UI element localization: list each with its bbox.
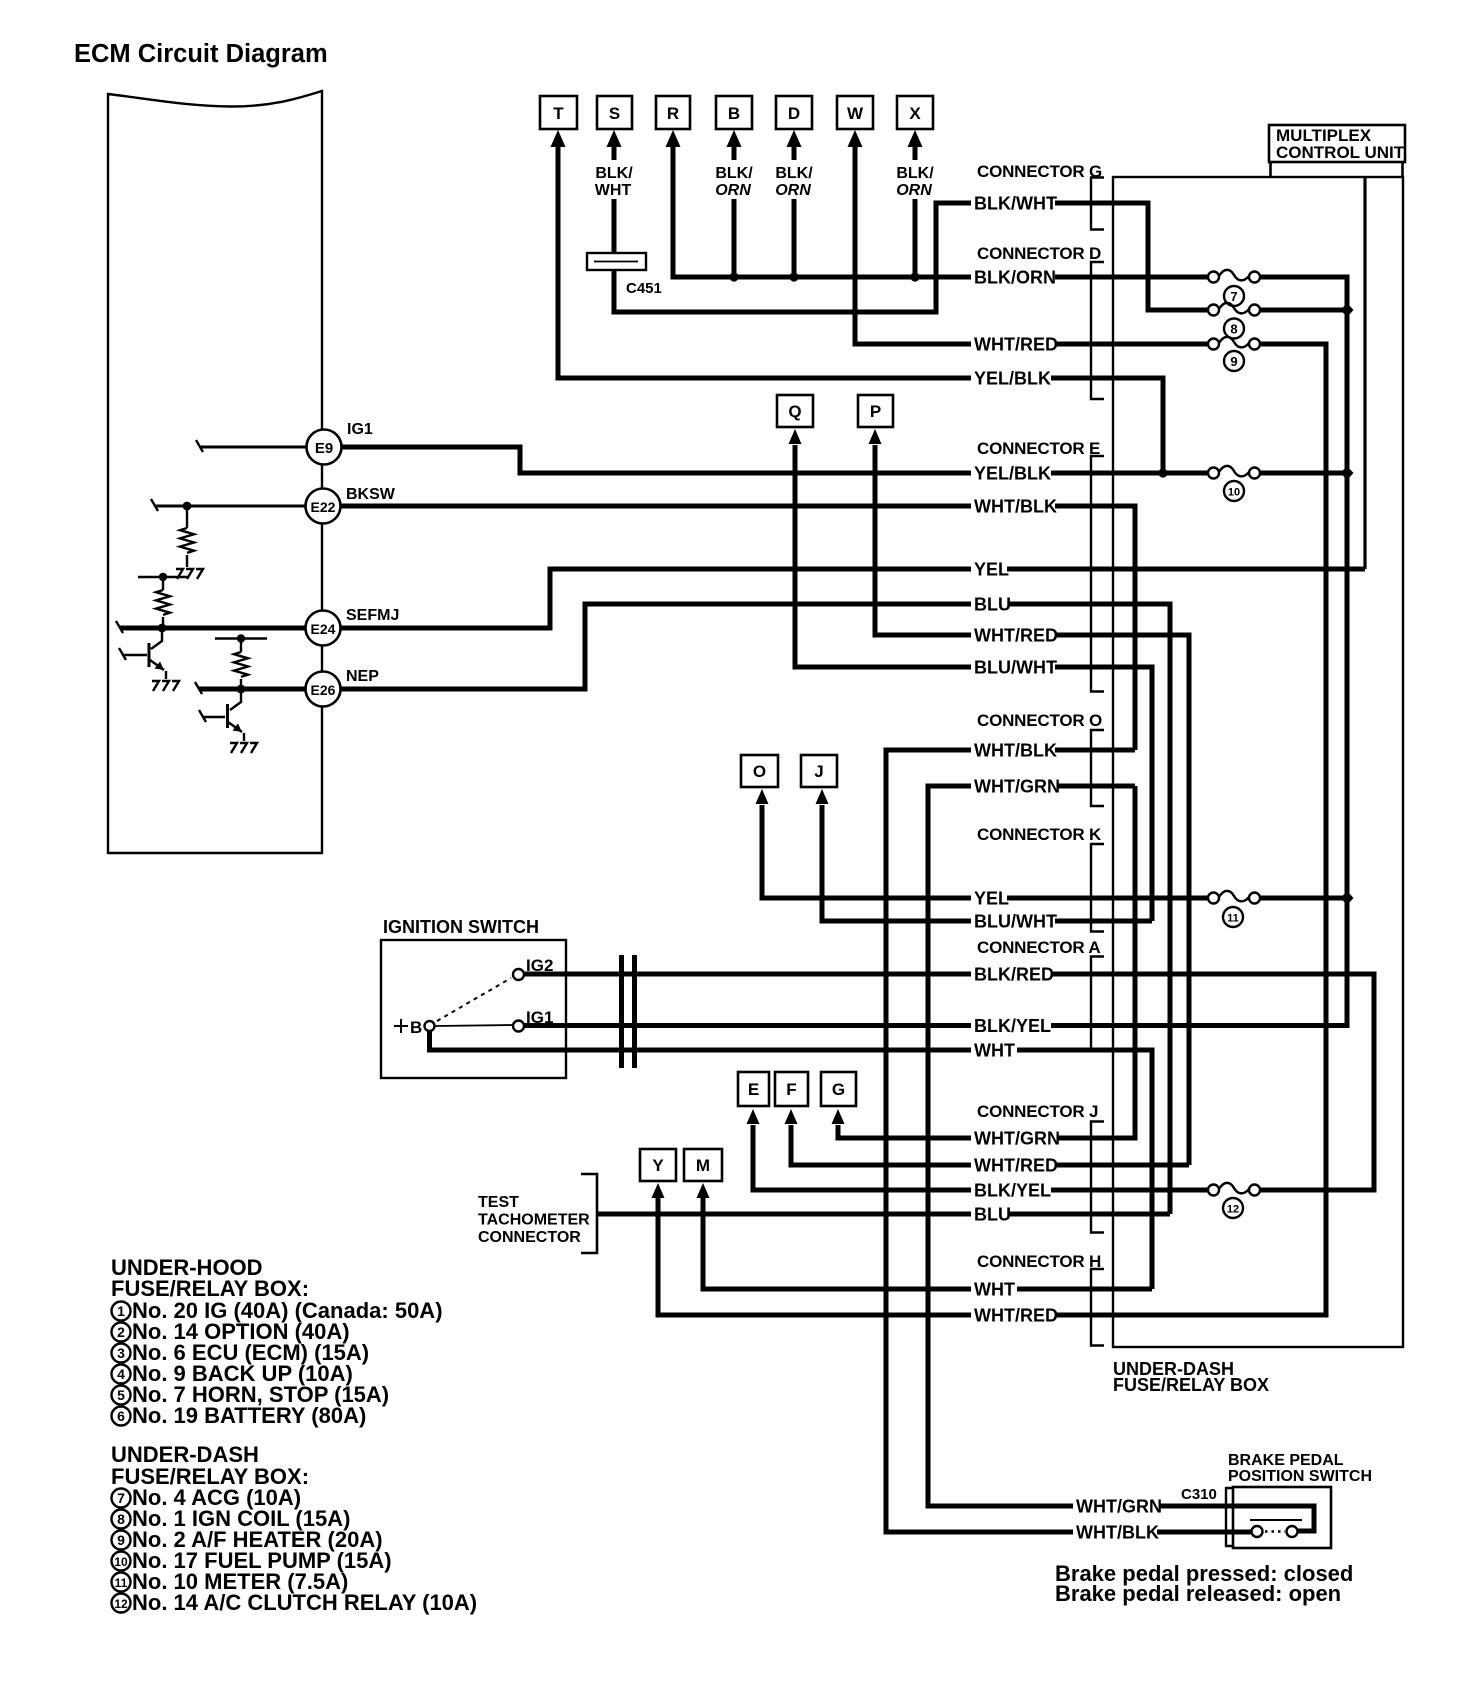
svg-text:CONNECTOR E: CONNECTOR E: [977, 439, 1100, 458]
svg-text:C310: C310: [1181, 1486, 1217, 1503]
svg-text:E: E: [748, 1080, 759, 1099]
svg-text:BKSW: BKSW: [346, 486, 396, 503]
svg-text:3: 3: [117, 1345, 125, 1361]
svg-text:BLK/WHT: BLK/WHT: [974, 194, 1057, 214]
svg-text:WHT/RED: WHT/RED: [974, 1156, 1058, 1176]
svg-text:FUSE/RELAY BOX: FUSE/RELAY BOX: [1113, 1375, 1269, 1395]
svg-text:CONNECTOR A: CONNECTOR A: [977, 938, 1100, 957]
svg-text:11: 11: [115, 1576, 128, 1590]
svg-text:YEL/BLK: YEL/BLK: [974, 369, 1051, 389]
svg-text:WHT/RED: WHT/RED: [974, 335, 1058, 355]
svg-text:BLU: BLU: [974, 595, 1011, 615]
svg-text:IG2: IG2: [526, 956, 553, 975]
svg-text:CONNECTOR H: CONNECTOR H: [977, 1252, 1101, 1271]
svg-text:Q: Q: [788, 402, 801, 421]
svg-text:Brake pedal released: open: Brake pedal released: open: [1055, 1581, 1341, 1606]
svg-text:BLU: BLU: [974, 1205, 1011, 1225]
svg-text:YEL: YEL: [974, 889, 1009, 909]
svg-text:S: S: [609, 104, 620, 123]
svg-text:X: X: [909, 104, 921, 123]
svg-text:WHT/BLK: WHT/BLK: [974, 741, 1057, 761]
svg-text:P: P: [870, 402, 881, 421]
svg-text:YEL/BLK: YEL/BLK: [974, 464, 1051, 484]
svg-text:IG1: IG1: [526, 1008, 553, 1027]
svg-text:11: 11: [1227, 913, 1239, 925]
svg-text:SEFMJ: SEFMJ: [346, 607, 399, 624]
svg-text:6: 6: [117, 1408, 125, 1424]
svg-text:R: R: [667, 104, 679, 123]
svg-text:W: W: [847, 104, 864, 123]
svg-text:TACHOMETER: TACHOMETER: [478, 1212, 590, 1229]
svg-text:CONNECTOR G: CONNECTOR G: [977, 162, 1102, 181]
svg-text:CONNECTOR D: CONNECTOR D: [977, 244, 1101, 263]
svg-text:No. 14 A/C CLUTCH RELAY (10A): No. 14 A/C CLUTCH RELAY (10A): [132, 1590, 477, 1615]
svg-text:POSITION SWITCH: POSITION SWITCH: [1228, 1468, 1372, 1485]
svg-text:7: 7: [117, 1490, 125, 1506]
svg-text:E26: E26: [311, 682, 336, 698]
svg-text:12: 12: [1227, 1204, 1239, 1216]
svg-text:CONNECTOR O: CONNECTOR O: [977, 711, 1102, 730]
svg-text:BRAKE PEDAL: BRAKE PEDAL: [1228, 1452, 1344, 1469]
svg-text:BLK/ORN: BLK/ORN: [974, 268, 1056, 288]
svg-text:BLK/: BLK/: [775, 165, 813, 182]
svg-text:WHT/GRN: WHT/GRN: [974, 777, 1060, 797]
svg-text:E24: E24: [311, 621, 336, 637]
svg-text:YEL: YEL: [974, 560, 1009, 580]
svg-text:ORN: ORN: [775, 182, 811, 199]
svg-text:IGNITION SWITCH: IGNITION SWITCH: [383, 917, 539, 937]
svg-text:TEST: TEST: [478, 1194, 519, 1211]
svg-text:4: 4: [117, 1366, 125, 1382]
svg-text:9: 9: [117, 1532, 125, 1548]
svg-text:BLK/RED: BLK/RED: [974, 965, 1054, 985]
svg-text:D: D: [788, 104, 800, 123]
svg-text:WHT: WHT: [595, 182, 632, 199]
svg-text:5: 5: [117, 1387, 125, 1403]
svg-text:CONNECTOR J: CONNECTOR J: [977, 1102, 1098, 1121]
svg-text:B: B: [410, 1018, 422, 1037]
svg-text:ORN: ORN: [896, 182, 932, 199]
svg-text:BLU/WHT: BLU/WHT: [974, 912, 1057, 932]
svg-text:BLK/: BLK/: [715, 165, 753, 182]
svg-text:1: 1: [117, 1303, 125, 1319]
svg-text:B: B: [728, 104, 740, 123]
svg-text:WHT/RED: WHT/RED: [974, 626, 1058, 646]
svg-text:C451: C451: [626, 280, 662, 297]
svg-text:M: M: [696, 1156, 710, 1175]
svg-text:BLK/: BLK/: [896, 165, 934, 182]
svg-text:CONNECTOR: CONNECTOR: [478, 1229, 581, 1246]
svg-text:CONTROL UNIT: CONTROL UNIT: [1276, 143, 1405, 162]
svg-text:F: F: [786, 1080, 796, 1099]
svg-text:ORN: ORN: [715, 182, 751, 199]
svg-text:WHT: WHT: [974, 1280, 1015, 1300]
svg-text:ECM Circuit Diagram: ECM Circuit Diagram: [74, 40, 328, 68]
svg-text:WHT/RED: WHT/RED: [974, 1306, 1058, 1326]
svg-text:J: J: [814, 762, 823, 781]
svg-text:10: 10: [114, 1555, 128, 1569]
svg-text:WHT/GRN: WHT/GRN: [974, 1129, 1060, 1149]
svg-text:9: 9: [1230, 354, 1237, 369]
svg-text:7: 7: [1230, 289, 1237, 304]
svg-text:T: T: [553, 104, 564, 123]
svg-text:BLK/YEL: BLK/YEL: [974, 1181, 1051, 1201]
svg-text:BLK/YEL: BLK/YEL: [974, 1016, 1051, 1036]
svg-text:12: 12: [114, 1597, 128, 1611]
svg-text:10: 10: [1228, 487, 1240, 499]
svg-text:NEP: NEP: [346, 668, 379, 685]
svg-text:8: 8: [1230, 322, 1237, 337]
svg-text:No. 19 BATTERY (80A): No. 19 BATTERY (80A): [132, 1403, 366, 1428]
svg-text:IG1: IG1: [347, 421, 373, 438]
svg-text:BLK/: BLK/: [595, 165, 633, 182]
svg-text:WHT/BLK: WHT/BLK: [974, 497, 1057, 517]
svg-text:8: 8: [117, 1511, 125, 1527]
svg-text:E22: E22: [311, 499, 336, 515]
svg-text:WHT/GRN: WHT/GRN: [1076, 1497, 1162, 1517]
svg-text:BLU/WHT: BLU/WHT: [974, 658, 1057, 678]
svg-text:2: 2: [117, 1324, 125, 1340]
svg-text:CONNECTOR K: CONNECTOR K: [977, 825, 1102, 844]
svg-text:Y: Y: [652, 1156, 664, 1175]
svg-text:WHT/BLK: WHT/BLK: [1076, 1523, 1159, 1543]
svg-text:WHT: WHT: [974, 1041, 1015, 1061]
svg-text:O: O: [753, 762, 766, 781]
svg-text:G: G: [832, 1080, 845, 1099]
svg-text:E9: E9: [315, 440, 333, 457]
